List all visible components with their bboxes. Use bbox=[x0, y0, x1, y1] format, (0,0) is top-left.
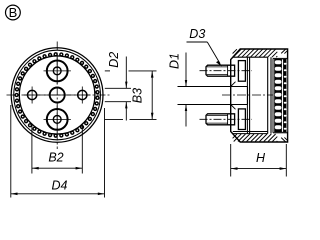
front view: knurl dot ring bbox=[15, 53, 99, 137]
dimension D4: dimension line bbox=[11, 193, 105, 195]
side view: top stud thread minor lines bbox=[207, 66, 228, 68]
side view: groove double lines bbox=[267, 57, 269, 133]
side view: knurl band bbox=[274, 59, 287, 132]
svg-text:D2: D2 bbox=[107, 52, 121, 68]
side view: outer body outline with chamfered left corners bbox=[231, 49, 288, 142]
side view: bottom stud centerline bbox=[200, 118, 253, 120]
side view: bore chamfer top bbox=[231, 82, 236, 87]
side view: bottom stud shaft bbox=[206, 114, 235, 125]
dimension B2: left extension line bbox=[31, 124, 33, 174]
side view: top stud centerline bbox=[200, 70, 253, 72]
dimension H: left extension line bbox=[230, 144, 232, 177]
front view: right hole bbox=[78, 90, 87, 99]
dimension D4: right extension line bbox=[104, 108, 106, 198]
dimension B2: dimension line bbox=[32, 167, 82, 169]
side view: bottom rim inner line bbox=[233, 131, 268, 133]
dimension D2: lower dimension line with up arrow bbox=[125, 102, 127, 121]
side view: inner wall full-height double line bbox=[246, 57, 248, 133]
dimension D1: lower dimension line with up arrow bbox=[185, 105, 187, 127]
front view: top boss horizontal crosshair bbox=[44, 70, 71, 72]
dimension D3: leader diagonal with arrow bbox=[207, 42, 220, 64]
side view: top boss rectangle bbox=[238, 61, 245, 82]
dimension B2: right extension line bbox=[81, 124, 83, 174]
front view: left hole bbox=[27, 90, 36, 99]
front view: bottom boss outer circle bbox=[47, 109, 68, 130]
dimension D2: upper dimension line with down arrow bbox=[125, 57, 127, 89]
side view: knurl left edge line bbox=[272, 58, 274, 132]
dimension B3: dimension line bbox=[151, 71, 153, 119]
dimension D2: lower tangent tick bbox=[105, 101, 131, 103]
side view: bottom hatching bbox=[233, 134, 288, 142]
side view: bottom stud thread minor lines bbox=[207, 115, 228, 117]
front view: left hole vertical crosshair bbox=[31, 87, 33, 104]
svg-text:H: H bbox=[256, 151, 266, 165]
dimension D1: upper tick / bore tangent extension bbox=[178, 86, 231, 88]
side view: top stud thread end line bbox=[227, 65, 229, 76]
dimension D4: left extension line bbox=[10, 105, 12, 198]
front view: solid centerline segments through bosses and center hole bbox=[56, 58, 58, 85]
dimension H: right extension line bbox=[285, 144, 287, 177]
front view: outer rim circle bbox=[11, 48, 103, 143]
svg-text:D3: D3 bbox=[189, 27, 205, 41]
front view: bottom boss inner circle bbox=[53, 116, 61, 124]
svg-text:B3: B3 bbox=[131, 88, 145, 103]
svg-text:D4: D4 bbox=[52, 179, 68, 193]
svg-text:D1: D1 bbox=[167, 53, 181, 69]
front view: inner circle bbox=[19, 56, 95, 134]
side view: main horizontal centerline bbox=[222, 94, 273, 96]
side view: knurl top boundary bbox=[273, 57, 288, 59]
view label B (circled) bbox=[5, 5, 20, 20]
side view: bore chamfer bottom bbox=[231, 105, 236, 110]
side view: center bore back line bbox=[247, 87, 249, 105]
side view: bottom stud thread end line bbox=[227, 114, 229, 125]
side view group bbox=[200, 49, 288, 142]
side view: top rim inner line bbox=[233, 56, 268, 58]
front view: left hole horizontal crosshair bbox=[24, 94, 40, 96]
front view: right hole horizontal crosshair bbox=[74, 94, 90, 96]
dimension D1: lower tick / bore tangent extension bbox=[178, 104, 231, 106]
dimension H: dimension line bbox=[231, 168, 286, 170]
side view: bottom boss rectangle bbox=[238, 109, 245, 130]
front view: top boss outer circle bbox=[47, 61, 68, 82]
svg-text:B2: B2 bbox=[48, 151, 63, 165]
svg-text:B: B bbox=[9, 5, 18, 20]
front view: horizontal centerline bbox=[7, 94, 111, 96]
front view: right hole vertical crosshair bbox=[81, 87, 83, 104]
side view: top hatching bbox=[233, 49, 288, 57]
dimension B3: bottom extension line (at bottom boss center) bbox=[105, 118, 123, 120]
dimension D3: leader landing line bbox=[187, 41, 208, 43]
dimension B3: top extension line (at top boss center) bbox=[105, 70, 110, 72]
front view: vertical centerline bbox=[56, 42, 58, 150]
front view: bottom boss horizontal crosshair bbox=[44, 118, 71, 120]
front view: top boss inner circle bbox=[53, 67, 61, 75]
dimension D2: upper tangent tick bbox=[105, 87, 131, 89]
front view: center hole bbox=[50, 88, 65, 103]
side view: center bore top line bbox=[231, 86, 248, 88]
front view: second rim circle bbox=[14, 50, 101, 140]
side view: top stud shaft bbox=[206, 65, 235, 76]
dimension D1: upper dimension line with down arrow bbox=[185, 53, 187, 87]
side view: knurl bottom boundary bbox=[273, 132, 288, 134]
side view: center bore bottom line bbox=[231, 104, 248, 106]
